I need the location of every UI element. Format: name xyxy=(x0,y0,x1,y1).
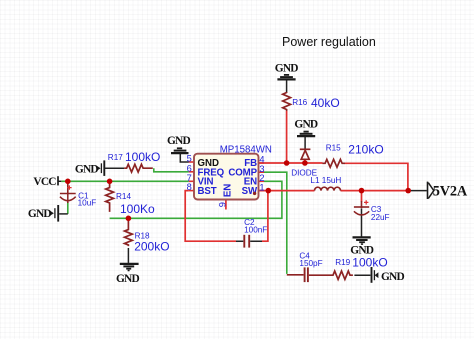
svg-text:GND: GND xyxy=(116,273,139,285)
svg-text:VCC: VCC xyxy=(33,176,56,188)
svg-text:R14: R14 xyxy=(116,192,131,201)
svg-text:5: 5 xyxy=(187,154,192,164)
svg-text:8: 8 xyxy=(187,182,192,192)
svg-text:100nF: 100nF xyxy=(244,226,267,235)
svg-text:SW: SW xyxy=(242,186,258,197)
svg-text:1: 1 xyxy=(259,183,264,193)
svg-text:R16: R16 xyxy=(292,98,307,107)
svg-text:5V2A: 5V2A xyxy=(433,183,468,199)
svg-text:100Ko: 100Ko xyxy=(120,202,155,216)
svg-text:100kO: 100kO xyxy=(125,150,160,164)
svg-text:R15: R15 xyxy=(326,144,341,153)
svg-text:22uF: 22uF xyxy=(371,213,390,222)
svg-text:210kO: 210kO xyxy=(348,142,383,156)
svg-text:R17: R17 xyxy=(108,153,123,162)
svg-text:GND: GND xyxy=(275,63,298,75)
svg-text:9: 9 xyxy=(217,202,227,207)
svg-text:L1 15uH: L1 15uH xyxy=(310,176,341,185)
svg-text:GND: GND xyxy=(28,208,51,220)
svg-text:10uF: 10uF xyxy=(78,199,97,208)
svg-text:Power regulation: Power regulation xyxy=(282,35,376,49)
svg-text:200kO: 200kO xyxy=(134,239,169,253)
svg-text:100kO: 100kO xyxy=(352,256,387,270)
svg-text:EN: EN xyxy=(223,184,234,197)
svg-text:40kO: 40kO xyxy=(311,96,340,110)
svg-text:GND: GND xyxy=(294,119,317,131)
svg-text:GND: GND xyxy=(381,271,404,283)
svg-text:R19: R19 xyxy=(335,258,350,267)
svg-text:GND: GND xyxy=(167,135,190,147)
svg-text:GND: GND xyxy=(75,163,98,175)
svg-text:150pF: 150pF xyxy=(299,259,322,268)
svg-text:BST: BST xyxy=(198,186,217,197)
